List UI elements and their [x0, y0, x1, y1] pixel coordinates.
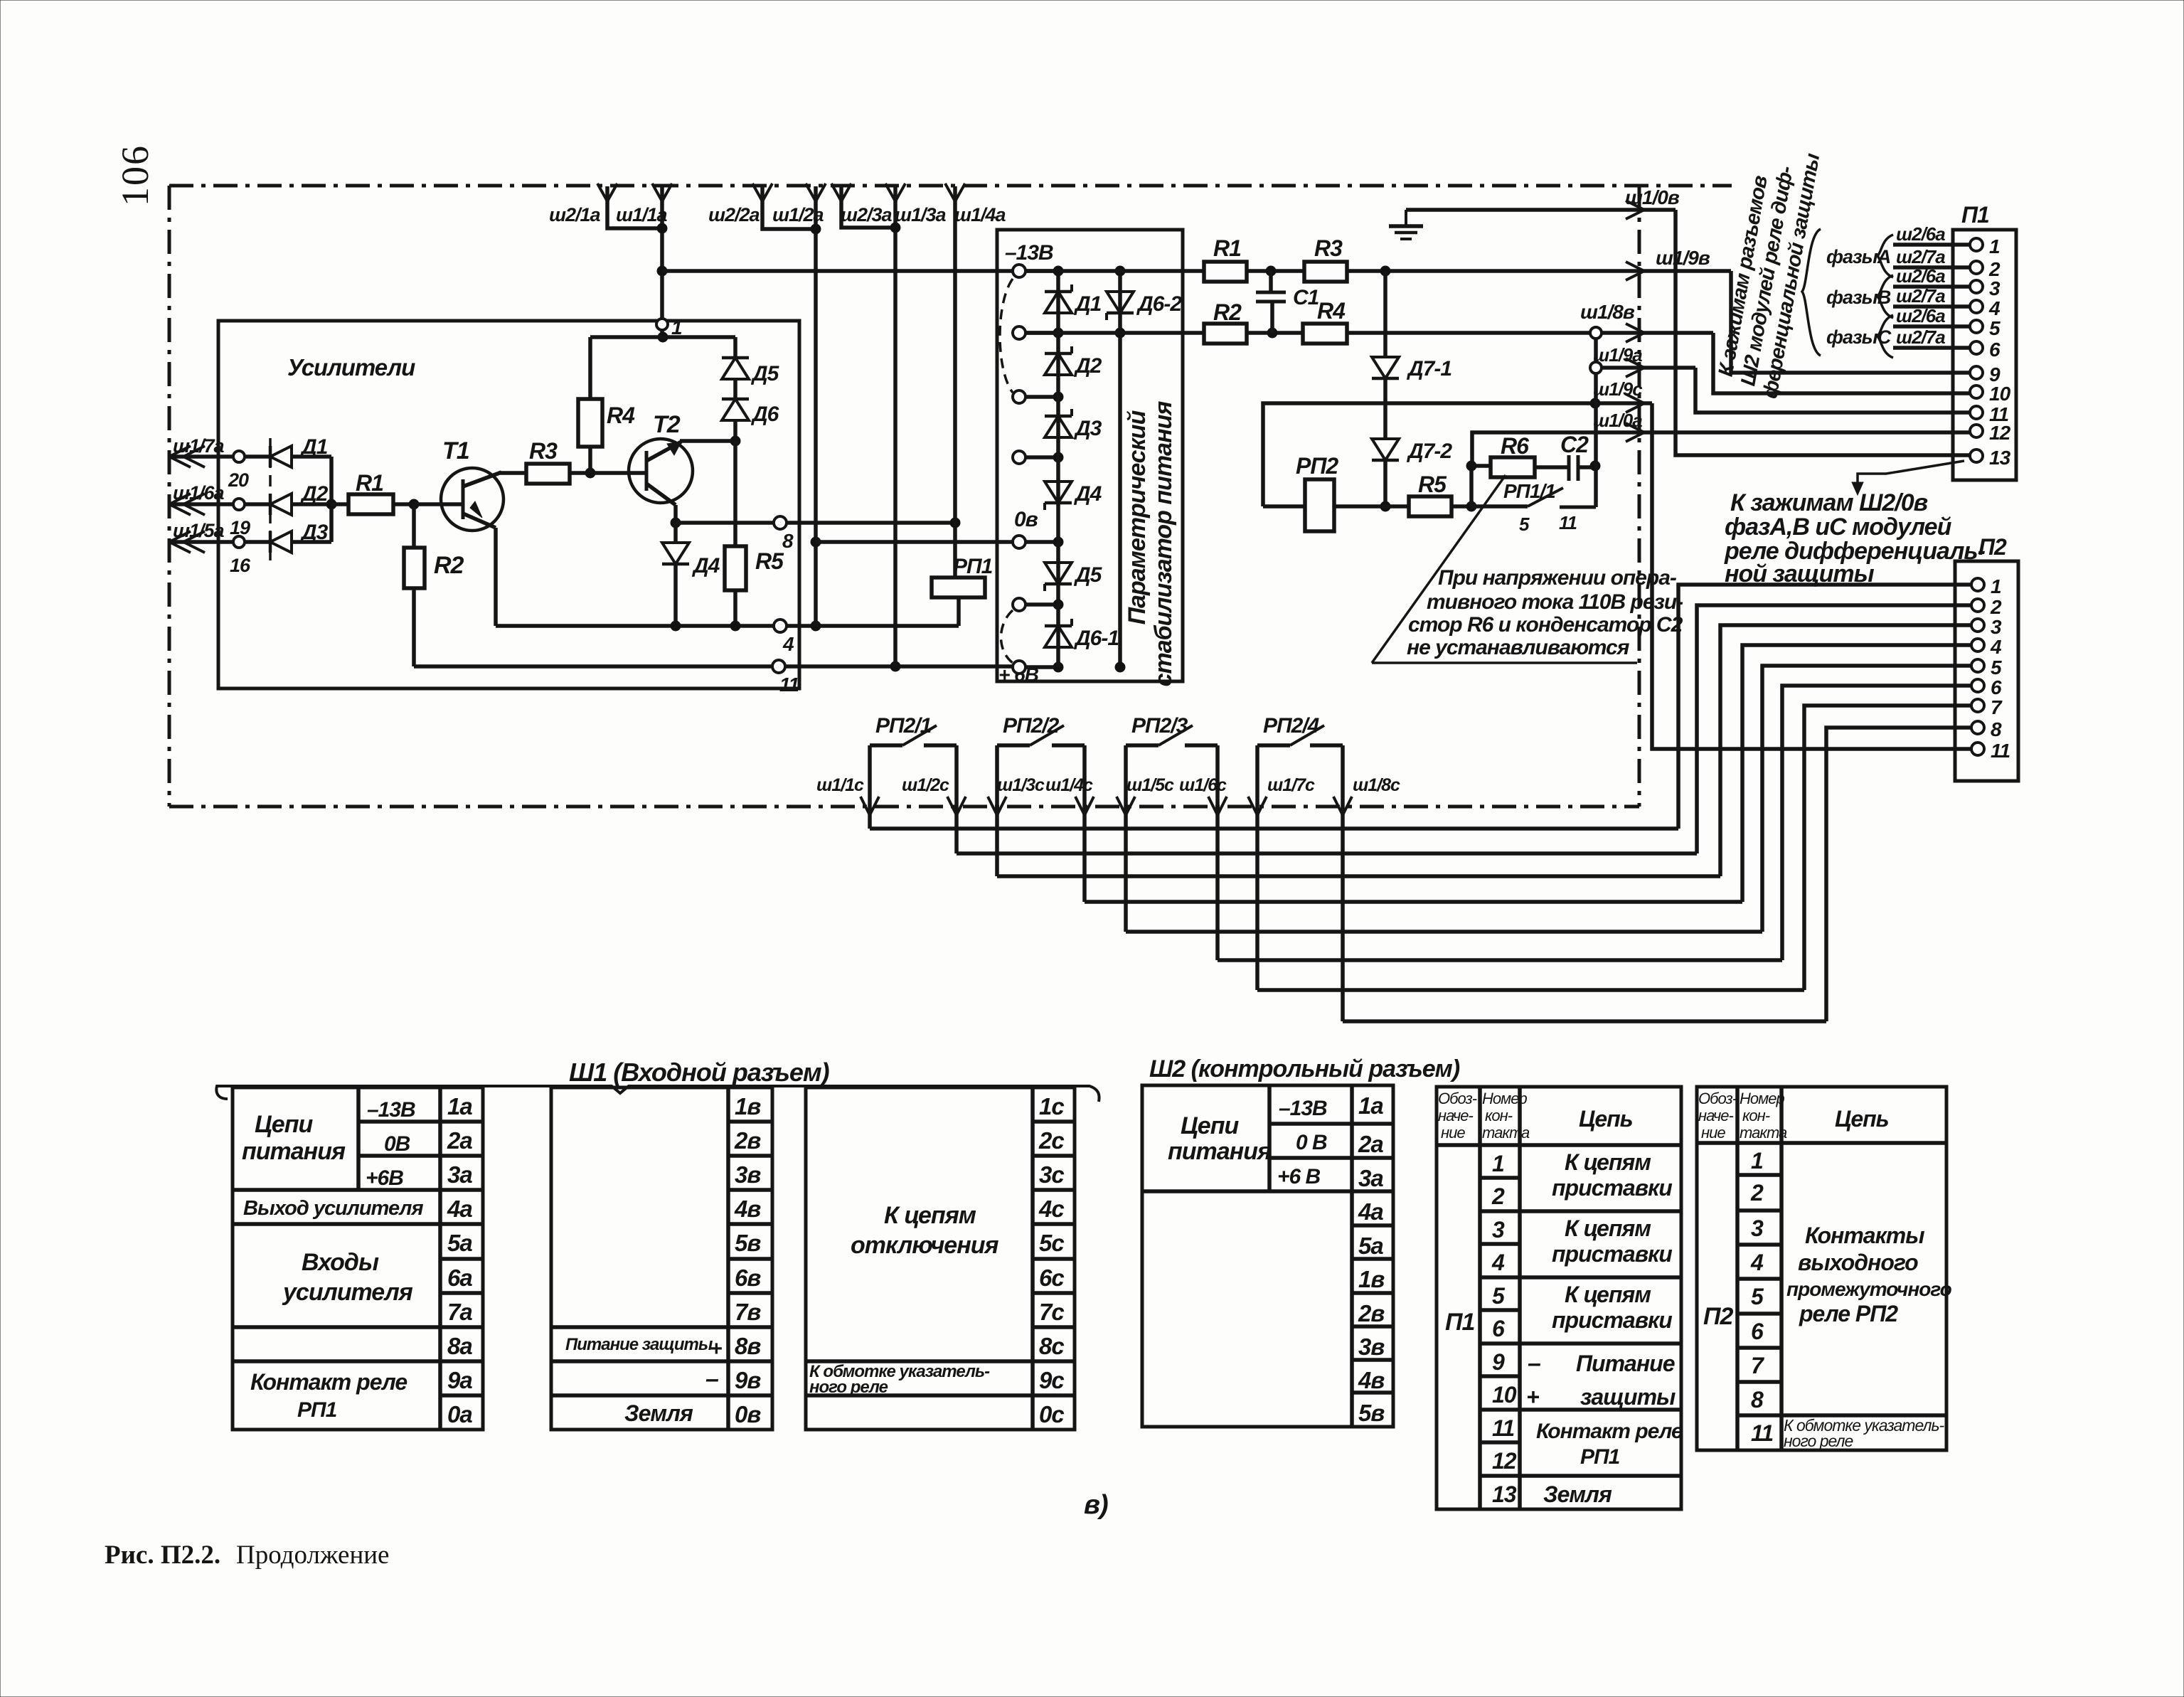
svg-text:Выход усилителя: Выход усилителя — [243, 1197, 423, 1220]
svg-text:+6 В: +6 В — [1277, 1165, 1321, 1188]
transistor T2 — [629, 439, 693, 505]
svg-text:Д2: Д2 — [299, 482, 329, 506]
svg-text:в): в) — [1084, 1490, 1108, 1520]
svg-text:защиты: защиты — [1580, 1384, 1676, 1410]
svg-text:6: 6 — [1751, 1319, 1764, 1344]
svg-text:R1: R1 — [356, 470, 383, 496]
svg-text:R4: R4 — [607, 403, 635, 428]
svg-text:5в: 5в — [1358, 1400, 1385, 1426]
svg-text:2с: 2с — [1038, 1127, 1064, 1154]
svg-text:R5: R5 — [1418, 472, 1447, 497]
svg-text:ш1/3а: ш1/3а — [895, 204, 947, 225]
П2 pin 7 — [1971, 699, 1984, 712]
resistor R5 (output) — [1385, 504, 1409, 509]
terminal 1 — [656, 319, 668, 330]
table Ш1 sub-table a (Цепи питания etc.) — [233, 1087, 483, 1430]
svg-text:–: – — [1528, 1350, 1541, 1377]
svg-text:R5: R5 — [755, 548, 784, 574]
wire 0-terminal / ш1/8в line — [1026, 331, 1204, 335]
svg-text:такта: такта — [1482, 1124, 1530, 1142]
svg-text:Д4: Д4 — [691, 554, 720, 578]
svg-text:7а: 7а — [447, 1299, 472, 1325]
П2 pin 6 — [1971, 679, 1984, 692]
svg-text:приставки: приставки — [1552, 1175, 1672, 1201]
svg-text:1: 1 — [1751, 1148, 1763, 1174]
svg-text:фазА,В иС модулей: фазА,В иС модулей — [1725, 514, 1952, 541]
wire to П1 pin 9 — [1731, 271, 1970, 373]
svg-text:1: 1 — [1991, 575, 2001, 597]
svg-text:Д7-2: Д7-2 — [1406, 440, 1452, 463]
svg-text:13: 13 — [1989, 447, 2011, 469]
svg-text:1с: 1с — [1039, 1093, 1064, 1119]
wire Д6 node down to R5 — [733, 441, 737, 546]
svg-text:6: 6 — [1989, 339, 2001, 361]
svg-text:наче-: наче- — [1438, 1107, 1473, 1124]
svg-text:3с: 3с — [1039, 1161, 1064, 1188]
svg-text:10: 10 — [1492, 1382, 1517, 1408]
svg-text:Цепь: Цепь — [1579, 1106, 1633, 1132]
svg-text:R3: R3 — [529, 438, 558, 464]
wire РП2 branch top / ш1/9с line — [1263, 403, 1652, 506]
svg-text:приставки: приставки — [1552, 1307, 1672, 1333]
wire bundle 8 — [1343, 1019, 1826, 1023]
svg-text:ного реле: ного реле — [1784, 1432, 1853, 1450]
svg-text:2: 2 — [1990, 596, 2002, 618]
wire ш1/1с leg — [868, 745, 872, 829]
svg-text:РП1: РП1 — [1580, 1445, 1620, 1469]
table Ш1 brace line — [216, 1086, 1099, 1102]
resistor R1 (filter) — [1204, 262, 1247, 282]
wire П2 pin 2 — [1697, 605, 1971, 853]
svg-text:ш2/7а: ш2/7а — [1896, 246, 1945, 267]
frame chain border right — [1638, 186, 1641, 807]
svg-text:РП2/3: РП2/3 — [1131, 714, 1188, 738]
svg-text:тивного тока 110В рези-: тивного тока 110В рези- — [1427, 590, 1683, 614]
svg-text:0в: 0в — [1014, 508, 1038, 531]
relay coil РП1 — [953, 523, 957, 578]
wire to П1 pin 13 — [1676, 210, 1970, 455]
terminal 4 — [774, 619, 787, 632]
svg-text:Д6-1: Д6-1 — [1073, 627, 1119, 650]
svg-text:6: 6 — [1991, 676, 2002, 698]
svg-text:ш2/7а: ш2/7а — [1896, 326, 1945, 348]
svg-text:0 В: 0 В — [1296, 1131, 1327, 1154]
wire terminal 8 line — [676, 521, 774, 525]
connector arrow Ш1/3а at frame — [885, 183, 895, 201]
zener diode Д6-2 (stabilizer) — [1118, 271, 1122, 667]
svg-text:9а: 9а — [447, 1367, 472, 1393]
svg-text:0а: 0а — [447, 1401, 472, 1427]
svg-text:Д6: Д6 — [750, 403, 779, 426]
svg-text:Д2: Д2 — [1073, 354, 1102, 378]
wire -13В bus / ш1/9в line — [662, 269, 1013, 273]
svg-text:С2: С2 — [1560, 432, 1589, 457]
svg-text:отключения: отключения — [851, 1232, 999, 1259]
wire ш1/0а line — [1472, 432, 1970, 466]
svg-text:4с: 4с — [1038, 1196, 1064, 1222]
svg-text:ние: ние — [1441, 1124, 1465, 1142]
П2 pin 5 — [1971, 659, 1984, 672]
svg-text:R1: R1 — [1213, 235, 1241, 261]
terminal 11 — [772, 660, 785, 673]
table Ш1 sub-table c (К цепям отключения) — [806, 1087, 1075, 1430]
svg-text:5: 5 — [1991, 656, 2002, 679]
wire Ш1/3а vertical — [893, 186, 897, 666]
svg-text:Ш2 (контрольный разъем): Ш2 (контрольный разъем) — [1149, 1055, 1460, 1082]
diode Д5 (amplifier) — [733, 337, 737, 358]
wire Ш1/4а vertical — [953, 186, 957, 523]
note bottom line — [1372, 661, 1637, 664]
svg-text:R2: R2 — [1213, 299, 1242, 325]
wire R2 bottom to terminal 11 line — [412, 588, 416, 666]
svg-text:Параметрический: Параметрический — [1124, 410, 1151, 624]
svg-text:К цепям: К цепям — [1565, 1149, 1651, 1175]
node Ш1/7а input wire — [169, 454, 270, 459]
svg-text:ш1/9а: ш1/9а — [1593, 344, 1642, 366]
svg-text:11: 11 — [1559, 512, 1577, 533]
svg-text:R4: R4 — [1317, 298, 1346, 324]
svg-text:106: 106 — [114, 144, 156, 206]
wire ш1/6с leg — [1215, 745, 1220, 960]
svg-text:R2: R2 — [434, 552, 464, 579]
svg-text:1: 1 — [1989, 235, 2000, 257]
node Ш1/5а input wire — [169, 540, 270, 544]
svg-text:питания: питания — [242, 1138, 346, 1165]
svg-text:5в: 5в — [735, 1230, 761, 1256]
zener diode Д3 (stabilizer) — [1045, 416, 1072, 437]
svg-text:ш1/9в: ш1/9в — [1656, 247, 1710, 269]
wire bundle 4 — [1085, 900, 1742, 904]
svg-text:7в: 7в — [735, 1299, 761, 1325]
П2 pin 4 — [1971, 639, 1984, 651]
svg-text:4в: 4в — [1358, 1367, 1385, 1393]
П2 pin 3 — [1971, 619, 1984, 632]
svg-text:ш2/6а: ш2/6а — [1896, 223, 1945, 245]
connector arrow Ш1/2а at frame — [806, 183, 816, 201]
svg-text:9с: 9с — [1039, 1367, 1064, 1393]
svg-text:8: 8 — [1991, 718, 2002, 740]
svg-text:2в: 2в — [734, 1127, 761, 1154]
svg-text:8: 8 — [1751, 1387, 1764, 1413]
svg-text:Питание: Питание — [1576, 1351, 1675, 1376]
svg-text:–: – — [705, 1366, 719, 1393]
svg-text:1: 1 — [1492, 1151, 1504, 1176]
connector arrow Ш2/2а at frame — [752, 183, 762, 201]
svg-text:ш1/5с: ш1/5с — [1126, 775, 1174, 795]
svg-text:ш1/4с: ш1/4с — [1045, 775, 1093, 795]
svg-text:РП2/4: РП2/4 — [1263, 714, 1320, 738]
svg-text:1в: 1в — [1358, 1266, 1385, 1292]
svg-text:3а: 3а — [447, 1161, 472, 1188]
svg-text:ш2/3а: ш2/3а — [841, 204, 893, 225]
svg-text:Контакт реле: Контакт реле — [250, 1369, 407, 1395]
wire ш1/2с leg — [954, 745, 959, 853]
diode Д2 — [270, 494, 292, 515]
wire П2 pin 4 — [1742, 645, 1971, 902]
svg-text:ш2/6а: ш2/6а — [1896, 305, 1945, 326]
svg-text:6а: 6а — [447, 1265, 472, 1291]
svg-text:ш1/1с: ш1/1с — [816, 775, 864, 795]
svg-text:Обоз-: Обоз- — [1698, 1090, 1737, 1107]
svg-text:не устанавливаются: не устанавливаются — [1407, 636, 1630, 659]
zener diode Д1 (stabilizer) — [1045, 292, 1072, 313]
dashed link line through diode cathodes — [269, 438, 272, 560]
wire to П1 pin 10 — [1713, 333, 1970, 393]
zener diode Д5 (stabilizer) — [1045, 563, 1072, 584]
braces фазы — [1877, 235, 1893, 277]
svg-text:4: 4 — [782, 633, 794, 655]
svg-text:6: 6 — [1492, 1316, 1505, 1341]
svg-text:2: 2 — [1491, 1183, 1505, 1209]
svg-text:Усилители: Усилители — [287, 354, 415, 381]
diode Д4 (amplifier) — [673, 523, 678, 542]
П1 pin 10 — [1970, 385, 1983, 398]
wire terminal 4 line — [496, 624, 774, 628]
svg-text:+: + — [710, 1337, 722, 1361]
capacitor C2 — [1535, 465, 1568, 469]
svg-text:ш1/8с: ш1/8с — [1353, 775, 1400, 795]
svg-text:Земля: Земля — [1543, 1481, 1612, 1507]
svg-text:+6В: +6В — [366, 1166, 403, 1190]
wire П1 pin 5 stub — [1893, 324, 1970, 329]
wire П2 pin 8 — [1826, 728, 1971, 1021]
diode Д1 — [270, 446, 292, 467]
svg-text:2в: 2в — [1358, 1300, 1385, 1326]
svg-text:П1: П1 — [1445, 1309, 1474, 1336]
svg-text:1а: 1а — [447, 1093, 472, 1119]
svg-text:0В: 0В — [384, 1132, 410, 1156]
svg-text:Контакт реле: Контакт реле — [1536, 1420, 1683, 1443]
svg-text:РП1: РП1 — [297, 1398, 337, 1422]
wire П2 pin 7 — [1804, 706, 1971, 990]
table Ш2 — [1142, 1085, 1393, 1427]
svg-text:R6: R6 — [1501, 433, 1529, 459]
svg-text:5: 5 — [1989, 317, 2001, 339]
svg-text:усилителя: усилителя — [282, 1279, 413, 1306]
dashed jumper arc bottom — [1001, 610, 1013, 663]
П1 pin13 arrow to note — [1858, 461, 1964, 489]
svg-text:9: 9 — [1492, 1349, 1505, 1375]
svg-text:ш1/0а: ш1/0а — [1593, 410, 1642, 431]
svg-text:–13В: –13В — [1005, 241, 1053, 265]
wire ш1/3с leg — [995, 745, 999, 876]
svg-text:ш2/2а: ш2/2а — [708, 204, 760, 225]
svg-text:ш1/7а: ш1/7а — [173, 435, 225, 457]
wire R3 to R4/T2 base node — [570, 471, 646, 475]
table П2 — [1697, 1087, 1946, 1450]
svg-text:3: 3 — [1751, 1215, 1764, 1241]
svg-text:выходного: выходного — [1798, 1250, 1918, 1275]
wire bundle 2 — [957, 851, 1697, 856]
contact РП2/2 — [997, 743, 1030, 748]
svg-text:5: 5 — [1492, 1283, 1506, 1309]
resistor R6 — [1471, 464, 1491, 468]
svg-text:такта: такта — [1740, 1124, 1787, 1142]
svg-text:РП2/2: РП2/2 — [1003, 714, 1060, 738]
note leader line — [1372, 475, 1506, 663]
wire П2 pin 3 — [1720, 625, 1971, 876]
capacitor C1 — [1269, 271, 1273, 292]
resistor R3 (filter) — [1304, 262, 1347, 282]
wire Ш2/2а bracket — [762, 186, 816, 229]
wire Ш2/1а bracket — [607, 186, 662, 228]
svg-text:РП2: РП2 — [1296, 453, 1338, 479]
svg-text:фазыА: фазыА — [1826, 246, 1890, 267]
svg-text:3в: 3в — [1358, 1334, 1385, 1360]
relay coil РП2 — [1263, 504, 1305, 509]
wire ш1/4с leg — [1082, 745, 1087, 902]
wire node to R6 line — [1469, 466, 1474, 506]
terminal 8 — [774, 516, 787, 529]
svg-text:Входы: Входы — [302, 1249, 379, 1276]
П1 pin 3 — [1970, 280, 1983, 293]
wire T1 emitter down — [494, 528, 498, 626]
svg-text:Цепь: Цепь — [1835, 1106, 1889, 1132]
svg-text:промежуточного: промежуточного — [1786, 1278, 1952, 1300]
wire Ш1/2а vertical — [814, 186, 818, 626]
П1 pin 11 — [1970, 406, 1983, 419]
frame chain border left — [168, 186, 171, 807]
wire to П1 pin 11 — [1695, 368, 1970, 413]
svg-text:ш1/6а: ш1/6а — [173, 482, 225, 504]
svg-text:2а: 2а — [447, 1127, 472, 1154]
connector П1 box — [1953, 230, 2016, 480]
resistor R5 (amplifier) — [725, 546, 746, 590]
wire 0в line to stabilizer — [816, 540, 1013, 544]
svg-text:11: 11 — [1751, 1420, 1773, 1446]
wire П1 pin 6 stub — [1893, 346, 1970, 350]
svg-text:ш1/5а: ш1/5а — [173, 520, 225, 541]
svg-text:4в: 4в — [734, 1196, 761, 1222]
svg-text:ние: ние — [1701, 1124, 1725, 1142]
big brace — [1802, 229, 1821, 356]
svg-text:Цепи: Цепи — [1181, 1112, 1239, 1139]
svg-text:ш1/9с: ш1/9с — [1593, 378, 1643, 400]
wire П1 pin 2 stub — [1893, 265, 1970, 270]
svg-text:РП2/1: РП2/1 — [875, 714, 932, 738]
terminal 20 — [233, 451, 245, 462]
svg-text:–13В: –13В — [1279, 1097, 1327, 1120]
resistor R4 (amplifier) — [588, 337, 592, 399]
svg-text:8с: 8с — [1039, 1333, 1064, 1359]
wire ш1/8с leg — [1341, 745, 1345, 1021]
wire ш1/7с leg — [1255, 745, 1259, 990]
svg-text:Д5: Д5 — [1073, 563, 1103, 587]
П2 pin 2 — [1971, 599, 1984, 612]
svg-text:2а: 2а — [1358, 1131, 1383, 1157]
svg-text:9в: 9в — [735, 1367, 761, 1393]
contact РП1/1 — [1471, 504, 1528, 509]
node Ш1/6а input wire — [169, 502, 270, 506]
svg-text:К цепям: К цепям — [1565, 1282, 1651, 1307]
resistor R3 (amplifier) — [526, 464, 570, 484]
contact РП2/3 — [1126, 743, 1158, 748]
svg-text:4: 4 — [1988, 297, 2001, 319]
svg-text:20: 20 — [228, 469, 249, 491]
wire terminal 11 line to +6В — [414, 664, 772, 669]
svg-text:1в: 1в — [735, 1093, 761, 1119]
diode Д7-2 — [1383, 379, 1387, 438]
table П1 — [1437, 1087, 1681, 1509]
parametric stabilizer box — [997, 230, 1183, 681]
svg-text:7: 7 — [1991, 696, 2003, 718]
svg-text:ш1/6с: ш1/6с — [1179, 775, 1227, 795]
transistor T1 — [441, 468, 504, 531]
svg-text:ш1/1а: ш1/1а — [616, 204, 668, 225]
svg-text:ш1/2с: ш1/2с — [902, 775, 949, 795]
wire П2 pin 5 — [1762, 666, 1971, 932]
wire П1 pin 4 stub — [1893, 304, 1970, 309]
svg-text:5: 5 — [1519, 514, 1530, 535]
wire R1 to base node — [393, 502, 414, 506]
zener diode Д4 (stabilizer) — [1045, 482, 1072, 503]
wire bundle 6 — [1218, 958, 1782, 962]
svg-text:3: 3 — [1989, 277, 2001, 299]
svg-text:Д6-2: Д6-2 — [1136, 292, 1182, 316]
terminal 16 — [233, 536, 245, 548]
wire П2 pin 6 — [1782, 686, 1971, 960]
ground symbol — [1405, 210, 1407, 226]
svg-text:Д1: Д1 — [1073, 292, 1102, 316]
tie terminal on ш1/8в — [1590, 327, 1602, 339]
svg-text:0в: 0в — [735, 1401, 761, 1427]
svg-text:кон-: кон- — [1485, 1107, 1513, 1124]
connector П2 box — [1955, 561, 2018, 781]
svg-text:фазыС: фазыС — [1826, 326, 1892, 348]
svg-text:5с: 5с — [1039, 1230, 1064, 1256]
wire ш1/5с leg — [1124, 745, 1128, 932]
svg-text:Номер: Номер — [1482, 1090, 1527, 1107]
П1 pin 2 — [1970, 261, 1983, 274]
wire inner top node to R4 and Д5 — [590, 335, 735, 339]
svg-text:РП1/1: РП1/1 — [1503, 480, 1555, 502]
svg-text:Ш1 (Входной разъем): Ш1 (Входной разъем) — [569, 1058, 829, 1087]
svg-text:К цепям: К цепям — [884, 1202, 976, 1229]
svg-text:7с: 7с — [1039, 1299, 1064, 1325]
wire bundle 1 — [870, 826, 1678, 831]
svg-text:3а: 3а — [1358, 1165, 1383, 1191]
svg-text:стор R6 и конденсатор С2: стор R6 и конденсатор С2 — [1408, 613, 1683, 637]
svg-text:фазыВ: фазыВ — [1826, 287, 1891, 308]
svg-text:5а: 5а — [1358, 1233, 1383, 1259]
svg-text:1а: 1а — [1358, 1092, 1383, 1119]
wire Ш2/3а bracket — [841, 186, 895, 228]
svg-text:11: 11 — [779, 674, 799, 696]
svg-text:3: 3 — [1991, 616, 2002, 638]
svg-text:4: 4 — [1990, 636, 2002, 658]
svg-text:Цепи: Цепи — [255, 1111, 313, 1138]
svg-text:Номер: Номер — [1740, 1090, 1784, 1107]
wire contact to C2 node / tie vertical — [1594, 339, 1598, 507]
svg-text:R3: R3 — [1314, 235, 1343, 261]
svg-text:П2: П2 — [1978, 534, 2007, 560]
svg-text:ного реле: ного реле — [809, 1378, 888, 1397]
svg-text:ш1/7с: ш1/7с — [1267, 775, 1315, 795]
terminal 19 — [233, 499, 245, 510]
wire T2 upper lead to Д5/Д6 node — [680, 439, 735, 443]
svg-text:–13В: –13В — [367, 1098, 415, 1122]
tie terminal ш1/9а — [1590, 362, 1602, 373]
frame chain border top — [169, 184, 1732, 188]
wire T1 collector to R3 — [500, 471, 526, 475]
dashed jumper arc top — [1000, 279, 1013, 393]
diode Д3 — [270, 531, 292, 553]
svg-text:ш1/3с: ш1/3с — [997, 775, 1045, 795]
wire ш1/9с to П2 pin 11 — [1652, 403, 1971, 749]
svg-text:ш1/0в: ш1/0в — [1625, 186, 1680, 208]
svg-text:Д5: Д5 — [750, 362, 780, 385]
zener diode Д6-1 (stabilizer) — [1045, 626, 1072, 647]
